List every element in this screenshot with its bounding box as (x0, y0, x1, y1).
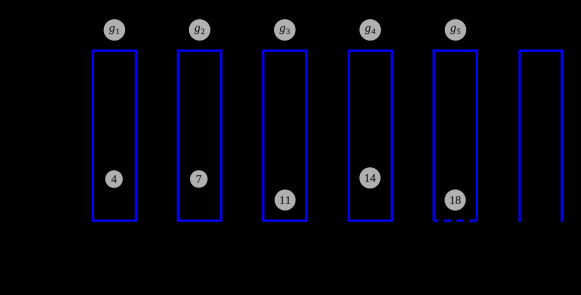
job circle 14 (359, 167, 380, 188)
label circle g5 (445, 19, 467, 41)
gap rectangle g4 (349, 51, 392, 221)
gap rectangle g5 dashed bottom edge (434, 219, 477, 221)
label circle g1 (104, 19, 126, 41)
job circle 4 (105, 170, 123, 188)
label circle g4 (359, 19, 381, 41)
gap rectangle g2 (178, 51, 221, 221)
job circle 11 (275, 190, 296, 211)
label circle g2 (189, 19, 211, 41)
gap rectangle g1 (93, 51, 136, 221)
gap rectangle g5 sides and top (434, 51, 477, 221)
label circle g3 (274, 19, 296, 41)
job circle 7 (190, 170, 208, 188)
gap rectangle g3 (263, 51, 306, 221)
job circle 18 (445, 189, 466, 210)
gap rectangle 6 open bottom (520, 51, 562, 222)
